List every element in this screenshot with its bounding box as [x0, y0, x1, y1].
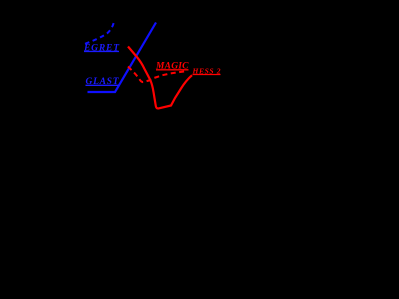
- MAGIC dashed curve (red dashed): [128, 67, 186, 83]
- EGRET label underline: [84, 50, 119, 52]
- GLAST sensitivity curve (blue solid): [88, 23, 157, 93]
- EGRET sensitivity curve (blue dashed): [85, 21, 114, 44]
- MAGIC sensitivity curve (red solid): [128, 47, 192, 109]
- HESS 2 label underline: [193, 74, 221, 76]
- GLAST label underline: [86, 84, 119, 86]
- MAGIC label underline: [156, 69, 189, 71]
